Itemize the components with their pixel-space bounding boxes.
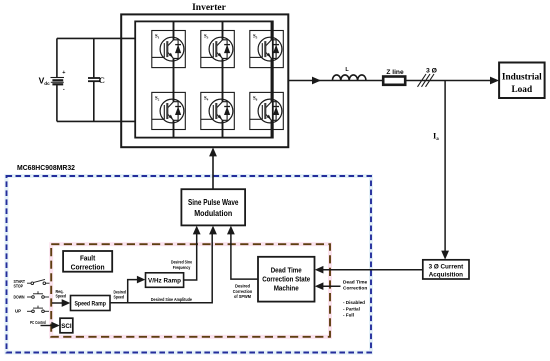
svg-text:Correction: Correction (233, 289, 253, 294)
block Fault Correction (63, 251, 112, 272)
wire current acquisition to DTCSM (322, 269, 423, 271)
battery Vdc (51, 38, 66, 121)
block V/Hz Ramp (146, 273, 184, 288)
arrow into current acquisition (441, 251, 449, 260)
svg-text:- Disabled: - Disabled (343, 300, 365, 305)
block Sine Pulse Wave Modulation (181, 189, 245, 225)
arrow into SCI (51, 322, 59, 329)
svg-text:Correction: Correction (71, 262, 105, 271)
inductor L (332, 75, 366, 81)
arrow into DTCSM top input (315, 266, 324, 274)
inverter inner box (DC bus ring) (135, 21, 273, 137)
svg-text:Dead Time: Dead Time (271, 266, 302, 275)
svg-text:Acquisition: Acquisition (429, 271, 463, 278)
svg-text:Machine: Machine (274, 283, 299, 292)
svg-text:- Full: - Full (343, 313, 354, 318)
block Industrial Load (499, 63, 544, 99)
svg-text:Speed: Speed (56, 294, 67, 299)
svg-text:Industrial: Industrial (502, 73, 542, 83)
svg-text:UP: UP (15, 309, 21, 314)
svg-text:Correction State: Correction State (262, 275, 310, 284)
switch S3 (201, 30, 235, 67)
svg-text:- Partial: - Partial (343, 306, 360, 311)
svg-text:S1: S1 (155, 35, 160, 40)
arrow into load (490, 77, 499, 85)
wire inverter output (288, 80, 490, 82)
svg-text:Z line: Z line (386, 69, 404, 76)
switch DOWN (27, 291, 49, 298)
block SCI (60, 318, 73, 333)
svg-text:Desired: Desired (235, 284, 250, 289)
arrow amplitude into SPWM (209, 226, 217, 235)
firmware boundary (brown dashed) (51, 244, 330, 337)
svg-text:-: - (63, 87, 65, 93)
mcu boundary MC68HC908MR32 (blue dashed) (7, 176, 372, 353)
arrow correction into SPWM (227, 226, 235, 235)
svg-text:Correction: Correction (343, 286, 367, 292)
wire branch to V/Hz ramp (128, 280, 138, 303)
wire dead time setting to DTCSM (322, 285, 341, 287)
wire bottom DC bus (57, 120, 135, 122)
svg-text:+: + (62, 70, 65, 76)
svg-text:STOP: STOP (14, 284, 24, 289)
switch S2 (152, 92, 186, 129)
svg-text:S2: S2 (155, 96, 160, 101)
switch UP (27, 306, 49, 313)
svg-text:Fault: Fault (80, 253, 96, 262)
arrow into inverter (209, 147, 217, 156)
svg-text:Modulation: Modulation (194, 209, 232, 218)
inverter outer box (121, 14, 288, 147)
arrow into V/Hz ramp (137, 276, 145, 284)
wire PC control to SCI (41, 325, 53, 327)
svg-text:3 Ø: 3 Ø (426, 68, 437, 75)
svg-text:Dead Time: Dead Time (343, 280, 368, 286)
svg-text:S3: S3 (204, 35, 209, 40)
svg-text:Inverter: Inverter (192, 3, 227, 13)
arrow output flow (312, 77, 321, 85)
svg-text:C: C (99, 75, 105, 85)
svg-text:S4: S4 (204, 96, 209, 101)
wire V/Hz output (desired sine frequency) (184, 232, 197, 281)
svg-text:DOWN: DOWN (14, 294, 25, 299)
wire leg C (271, 21, 273, 30)
wire into Speed Ramp (52, 302, 63, 304)
svg-text:Sine Pulse Wave: Sine Pulse Wave (188, 198, 239, 207)
svg-text:MC68HC908MR32: MC68HC908MR32 (17, 163, 75, 172)
wire leg A (173, 21, 175, 30)
block 3-phase Current Acquisition (423, 260, 469, 279)
switch S5 (250, 30, 283, 67)
svg-text:of SPWM: of SPWM (234, 294, 251, 299)
switch S4 (201, 92, 235, 129)
svg-text:Speed Ramp: Speed Ramp (74, 300, 106, 307)
arrow frequency into SPWM (193, 226, 201, 235)
svg-text:V/Hz Ramp: V/Hz Ramp (148, 278, 181, 285)
svg-text:Desired Sine Amplitude: Desired Sine Amplitude (151, 297, 193, 302)
three-phase slash marks (418, 74, 435, 87)
capacitor C (88, 38, 100, 121)
svg-text:3 Ø Current: 3 Ø Current (429, 263, 465, 270)
wire DTCSM to SPWM (231, 232, 258, 280)
svg-text:Desired Sine: Desired Sine (171, 260, 192, 265)
svg-text:SCI: SCI (61, 323, 72, 330)
wire SPWM to inverter (212, 154, 214, 190)
arrow into Speed Ramp (62, 299, 71, 307)
switch START/STOP (27, 279, 50, 284)
arrow into DTCSM lower input (315, 282, 324, 290)
svg-text:PC Control: PC Control (30, 320, 46, 325)
svg-text:Speed: Speed (114, 294, 125, 299)
switch S1 (152, 30, 186, 67)
impedance Z line (383, 77, 405, 85)
svg-text:S6: S6 (253, 96, 258, 101)
svg-text:Vdc: Vdc (39, 75, 50, 86)
wire top DC bus (57, 37, 135, 39)
block Speed Ramp (71, 296, 111, 311)
wire leg B (222, 21, 224, 30)
svg-text:S5: S5 (253, 35, 258, 40)
block Dead Time Correction State Machine (258, 257, 315, 302)
switch S6 (250, 92, 283, 129)
svg-text:Ia: Ia (433, 131, 439, 142)
svg-text:Frequency: Frequency (173, 265, 191, 270)
wire Speed Ramp output (desired sine amplitude) (110, 232, 212, 303)
svg-text:L: L (345, 67, 349, 73)
wire Ia sense line (444, 81, 446, 253)
svg-text:Load: Load (511, 85, 532, 95)
